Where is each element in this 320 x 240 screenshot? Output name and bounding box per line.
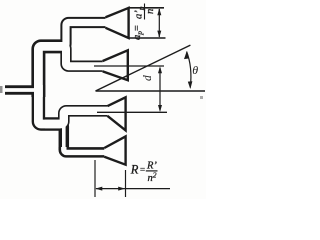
wire trunk lower + branch B xyxy=(38,85,60,124)
boresight horizontal ray xyxy=(96,90,206,92)
wire trunk upper + branch A xyxy=(38,46,67,97)
wire upper splitter to horn1 feed xyxy=(44,23,106,47)
horn antenna 2 xyxy=(103,50,128,80)
svg-text:n2: n2 xyxy=(148,170,157,184)
arrowhead R dim left xyxy=(95,187,102,191)
arrowhead aperture dim top xyxy=(157,8,161,15)
svg-text:d: d xyxy=(142,75,154,81)
aperture dimension line with arrows xyxy=(158,9,160,37)
wire hollow: lower splitter down arm xyxy=(45,124,64,150)
hollow white inner strokes of the tubes xyxy=(5,23,108,153)
R dimension extension lines xyxy=(94,160,96,197)
scan smudge left edge xyxy=(0,86,3,93)
angle theta arc with arrowheads xyxy=(187,52,191,88)
arrowhead aperture dim bottom xyxy=(157,31,161,38)
beam slant ray for angle theta xyxy=(96,45,191,91)
label R = R'/n^2 xyxy=(130,161,158,184)
horn antenna 4 xyxy=(104,136,125,164)
arrowhead theta arc bottom xyxy=(188,81,193,89)
wire lower splitter to horn3 feed xyxy=(45,111,108,124)
wire hollow: trunk upper + branch A xyxy=(38,46,67,97)
wire hollow: input stub lower elbow xyxy=(5,90,38,104)
wire hollow: lower splitter to horn3 feed xyxy=(45,111,108,124)
wire hollow: trunk lower + branch B xyxy=(38,85,60,124)
horn antenna 1 xyxy=(106,8,129,38)
wire lower splitter to horn4 feed xyxy=(45,124,64,150)
wire hollow: upper splitter to horn2 feed xyxy=(44,46,103,66)
scan speck right xyxy=(200,96,203,99)
wire lower splitter horn4 elbow xyxy=(64,147,105,152)
R dimension line with arrows xyxy=(96,188,170,190)
dimension d line with arrows xyxy=(159,68,161,111)
wire hollow: upper splitter to horn1 feed xyxy=(44,23,106,47)
aperture dimension extension lines xyxy=(129,7,165,9)
wire hollow: horn4 feed elbow xyxy=(64,147,105,152)
horn antenna 3 xyxy=(108,97,126,130)
arrowhead d bottom xyxy=(158,105,162,112)
wire upper splitter to horn2 feed xyxy=(44,46,103,66)
arrowhead theta arc top xyxy=(184,52,189,60)
svg-text:R=: R= xyxy=(130,162,145,176)
wire input stub upper elbow xyxy=(5,75,38,90)
axis line horn2 xyxy=(94,65,164,67)
wire input stub lower elbow xyxy=(5,90,38,104)
svg-text:n: n xyxy=(145,9,156,14)
waveguide feed network: black tube strokes xyxy=(5,23,108,153)
arrowhead d top xyxy=(158,66,162,73)
arrowhead R dim right xyxy=(118,187,125,191)
svg-text:ap=: ap= xyxy=(132,25,144,40)
axis line horn3 xyxy=(97,111,167,113)
label a_p = a'_p/n rotated xyxy=(132,4,156,41)
svg-text:θ: θ xyxy=(192,63,198,77)
wire hollow: input stub upper elbow xyxy=(5,75,38,90)
